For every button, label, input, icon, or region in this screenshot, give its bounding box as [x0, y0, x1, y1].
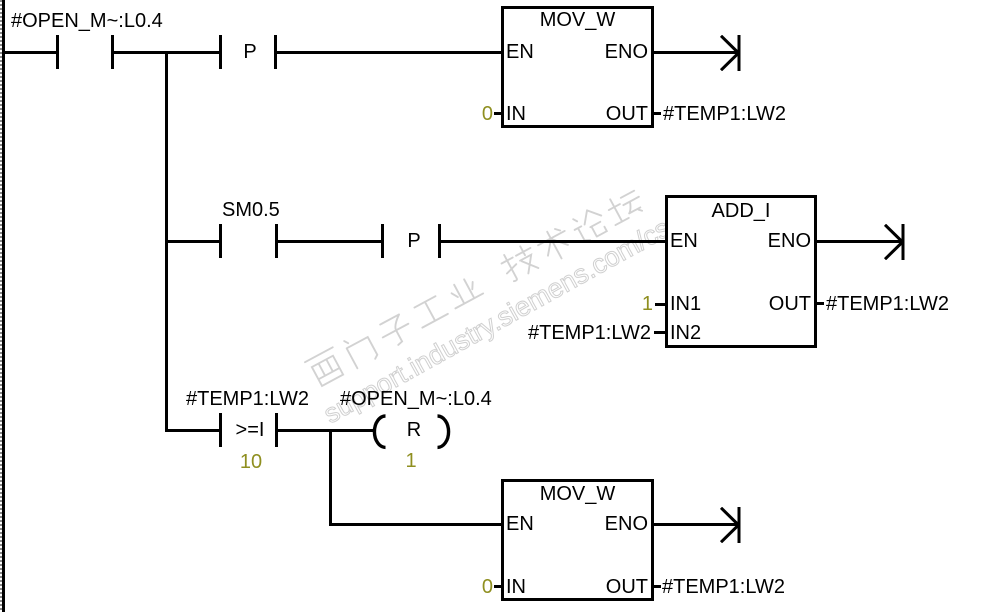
label SM0.5: [222, 200, 280, 220]
OUT 3 operand #TEMP1:LW2: [662, 577, 785, 597]
SM0.5 contact left bar: [219, 224, 222, 258]
pin ENO 2: [711, 231, 811, 251]
OUT operand #TEMP1:LW2: [663, 104, 786, 124]
ENO wire 3 to arrow: [654, 523, 739, 526]
left power rail: [2, 0, 5, 612]
MOV_W box U3: [501, 479, 654, 601]
ENO wire 2 to arrow: [817, 240, 902, 243]
IN1 value 1: [593, 294, 653, 314]
watermark url line: [319, 215, 674, 429]
compare operator >=I: [225, 420, 275, 440]
IN pin stub: [494, 112, 502, 115]
IN value 0: [433, 104, 493, 124]
pin EN 3: [506, 514, 534, 534]
contact 1 left bar: [56, 35, 59, 69]
pin EN 2: [670, 231, 698, 251]
P contact right bar: [274, 35, 277, 69]
pin IN1: [670, 294, 701, 314]
junction drop vertical: [329, 429, 332, 527]
pin OUT: [548, 104, 648, 124]
reset coil parentheses: [370, 413, 454, 451]
IN2 pin stub: [654, 331, 666, 334]
P contact (edge) left bar: [219, 35, 222, 69]
P contact 2 right bar: [438, 224, 441, 258]
pin OUT 2: [711, 294, 811, 314]
MOV_W box U1: [501, 6, 654, 128]
wire P contact to MOV_W box: [277, 51, 502, 54]
IN2 operand #TEMP1:LW2: [527, 323, 651, 343]
pin EN: [506, 42, 534, 62]
contact 1 right bar: [111, 35, 114, 69]
OUT 2 pin stub: [816, 302, 824, 305]
MOV_W title: [501, 10, 654, 30]
open arrow 3: [716, 507, 742, 543]
SM0.5 contact right bar: [275, 224, 278, 258]
IN 3 pin stub: [494, 585, 502, 588]
ADD_I title: [665, 201, 817, 221]
wire drop to MOV_W box 2: [329, 523, 503, 526]
ADD_I box U2: [665, 195, 817, 348]
left margin dotted line: [0, 0, 2, 612]
pin IN 3: [506, 577, 526, 597]
label #OPEN_M~:L0.4 (reset coil): [340, 389, 492, 409]
open arrow 1: [716, 35, 742, 71]
compare value 10: [221, 452, 281, 472]
wire rail to contact 1: [5, 51, 57, 54]
pin IN: [506, 104, 526, 124]
wire branch to SM0.5 contact: [166, 240, 219, 243]
branch junction vertical line: [165, 51, 168, 432]
label #TEMP1:LW2 (compare contact): [186, 389, 309, 409]
wire branch to compare contact: [165, 429, 219, 432]
open arrow 2: [880, 224, 906, 260]
P contact letter: [235, 42, 265, 62]
MOV_W 2 title: [501, 484, 654, 504]
pin IN2: [670, 323, 701, 343]
pin OUT 3: [548, 577, 648, 597]
reset coil letter R: [398, 420, 430, 440]
label #OPEN_M~:L0.4 (contact 1): [11, 11, 163, 31]
compare contact right bar: [275, 413, 278, 447]
OUT 2 operand #TEMP1:LW2: [826, 294, 949, 314]
P contact 2 left bar: [381, 224, 384, 258]
pin ENO: [548, 42, 648, 62]
compare contact left bar: [219, 413, 222, 447]
IN1 pin stub: [655, 303, 667, 306]
ENO wire to arrow: [654, 51, 739, 54]
pin ENO 3: [548, 514, 648, 534]
wire P contact 2 to ADD_I box: [441, 240, 666, 243]
OUT 3 pin stub: [653, 585, 661, 588]
wire contact 1 to P contact: [114, 51, 220, 54]
reset coil operand count 1: [381, 451, 441, 471]
IN 3 value 0: [433, 577, 493, 597]
wire compare contact to coil: [278, 429, 373, 432]
OUT pin stub: [653, 112, 661, 115]
P contact 2 letter: [399, 231, 429, 251]
wire SM0.5 to P contact: [278, 240, 382, 243]
